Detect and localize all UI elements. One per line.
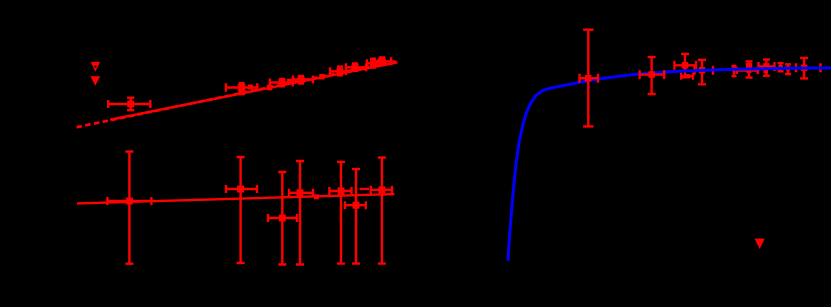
data point R8 xyxy=(785,64,791,74)
small marker U4b xyxy=(287,79,293,85)
filled down-triangle marker (upper limit 2) xyxy=(90,76,100,86)
data point L5 xyxy=(329,162,351,264)
fit line solid (upper-left panel) xyxy=(110,62,398,119)
data point U10 xyxy=(374,57,391,65)
flat fit line solid (lower-left panel) xyxy=(77,194,395,203)
data point L7 xyxy=(371,158,392,264)
overlapping marker R6b xyxy=(764,69,769,74)
blue efficiency curve (right panel) xyxy=(508,68,831,261)
small marker U6 xyxy=(319,74,325,80)
data point R5 xyxy=(746,61,753,77)
data point U5 xyxy=(293,76,313,84)
data point R2 xyxy=(640,57,665,94)
data point R4 xyxy=(695,60,714,85)
data point R5b xyxy=(737,67,758,74)
data point L1 xyxy=(107,152,151,264)
data point U4 xyxy=(270,79,293,87)
open down-triangle marker (upper limit 1) xyxy=(91,62,101,72)
data point U7 xyxy=(330,67,346,76)
data point U8 xyxy=(346,63,366,71)
data point L2 xyxy=(226,157,257,263)
data point R7 xyxy=(778,63,784,71)
small marker U3 xyxy=(267,85,273,91)
data point R6 xyxy=(759,60,775,76)
fit line dashed (upper-left panel) xyxy=(77,61,397,127)
data point L3 xyxy=(268,172,297,265)
data point R3b xyxy=(681,73,693,80)
short dash segment (lower-left panel) xyxy=(360,188,370,190)
filled down-triangle marker (right panel) xyxy=(755,239,765,249)
data point L4 xyxy=(289,161,313,265)
data point L6 xyxy=(345,169,366,264)
data point R1 xyxy=(580,30,599,127)
small marker L4b xyxy=(314,194,319,199)
overlapping marker U2b xyxy=(239,89,245,95)
data point U2 xyxy=(226,83,257,92)
data point U1 xyxy=(108,98,150,111)
data point U9 xyxy=(367,59,378,68)
small marker U2c xyxy=(248,85,253,90)
data point R3 xyxy=(674,54,696,77)
data point R9 xyxy=(796,58,821,79)
data point R4b xyxy=(732,66,737,76)
